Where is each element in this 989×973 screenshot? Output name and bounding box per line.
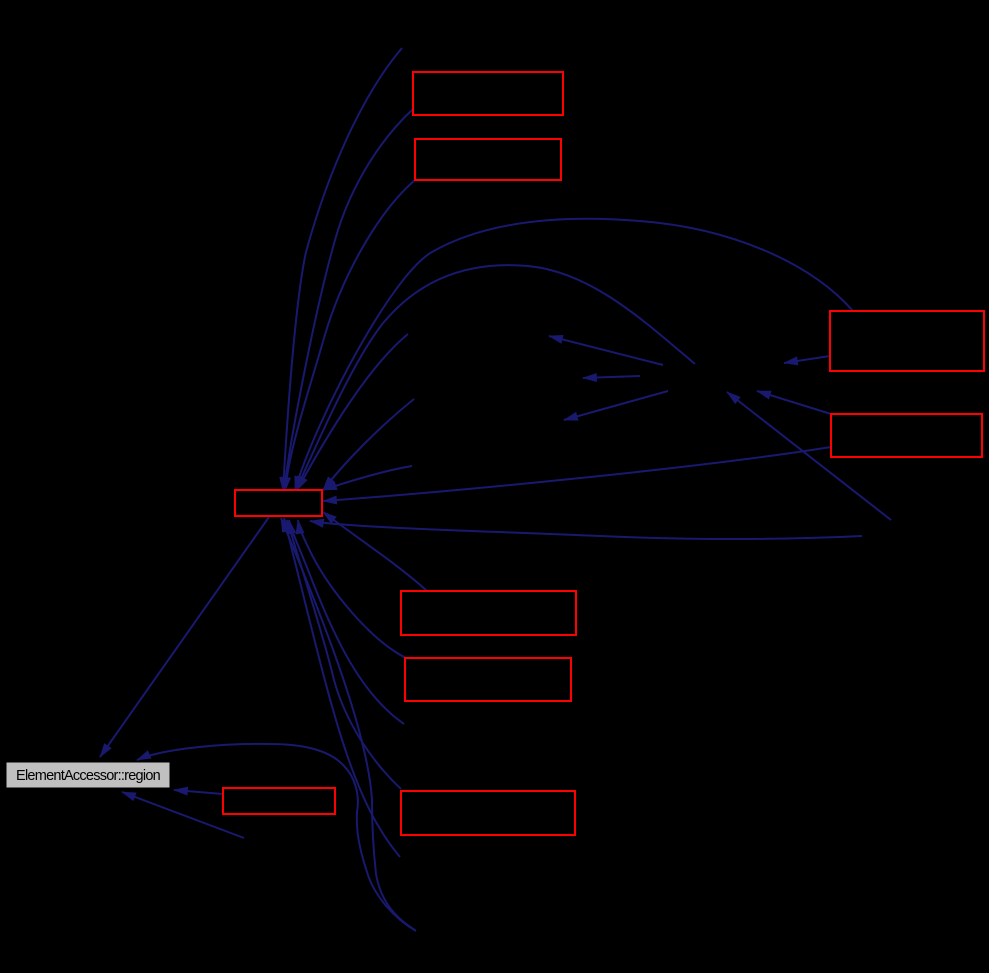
wire: edge from box BB to hub H	[757, 391, 831, 414]
wire: edge from node N5 to central node C	[284, 518, 400, 857]
box BA (truncated node, right top)	[830, 311, 984, 371]
box BB (truncated node, right)	[831, 414, 982, 457]
box BE (truncated node, small left)	[223, 788, 335, 814]
wire: edge from box BF to central node C	[287, 520, 401, 789]
box B2 (truncated node)	[415, 139, 561, 180]
wire: edge from node above B1 to central node C	[283, 48, 402, 491]
box B1 (truncated node, top)	[413, 72, 563, 115]
wire: edge from box BE to gray node G	[174, 790, 223, 794]
wire: edge from box BA (right top) arcing to central node C	[295, 219, 853, 490]
svg-text:ElementAccessor::region: ElementAccessor::region	[16, 768, 161, 784]
central node C	[235, 490, 322, 516]
wire: edge from node L1 to central node C	[297, 334, 408, 490]
wire: edge from node N6 arcing left to gray node G	[137, 744, 416, 931]
box BC (truncated node, middle)	[401, 591, 576, 635]
wire: edge from hub node H arcing to central node C	[296, 265, 695, 490]
gray current node G: ElementAccessor::region	[7, 763, 169, 787]
box BD (truncated node, middle lower)	[405, 658, 571, 701]
wire: edge from node N6 to central node C	[281, 518, 415, 930]
wire: edge from box BC to central node C	[323, 512, 427, 591]
wire: edge from hub H to node L2	[583, 376, 640, 378]
wire: edge from box BD to central node C	[298, 520, 406, 658]
wire: edge from box BB to central node C	[323, 447, 831, 501]
wire: edge from node L4 to central node C right corner	[323, 466, 412, 490]
wire: edge from central node C to gray node G	[100, 517, 269, 757]
wire: edge from box BA to hub H	[784, 356, 830, 363]
wire: edge from box B2 to central node C	[285, 180, 415, 491]
wire: edge from node N3 to gray node G	[122, 792, 244, 838]
wire: edge from node NR to central node C bottom	[310, 521, 862, 539]
wire: edge from node N4 to central node C	[289, 520, 404, 724]
box BF (truncated node, bottom middle)	[401, 791, 575, 835]
wire: edge from hub H to node L3	[564, 391, 668, 420]
wire: edge from node NR to hub H	[727, 392, 891, 520]
wire: edge from node L2 to central node C	[323, 399, 414, 490]
wire: edge from box B1 to central node C	[284, 109, 413, 491]
wire: edge from hub H to node L1	[549, 336, 663, 365]
